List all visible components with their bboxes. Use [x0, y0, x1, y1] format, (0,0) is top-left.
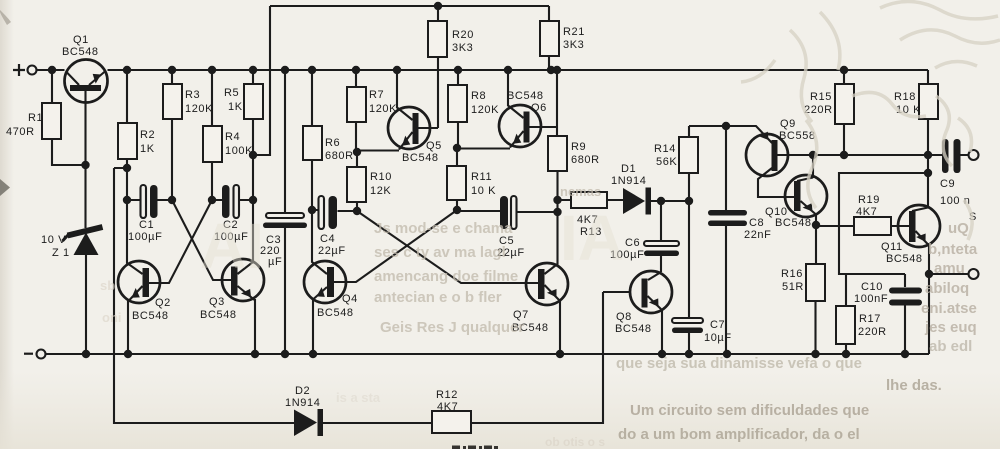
svg-text:ob otis o s: ob otis o s: [545, 435, 605, 449]
svg-text:BC548: BC548: [507, 90, 544, 102]
svg-text:sb: sb: [100, 278, 115, 293]
svg-text:amu: amu: [934, 260, 965, 277]
svg-text:10µF: 10µF: [704, 332, 732, 344]
svg-text:C6: C6: [625, 237, 640, 249]
node C10 bottom rail: [901, 350, 909, 358]
node R16 bottom rail: [811, 350, 819, 358]
svg-text:3K3: 3K3: [563, 39, 584, 51]
svg-text:12K: 12K: [370, 185, 391, 197]
resistor R13 4K7: [558, 192, 624, 238]
svg-text:1N914: 1N914: [285, 397, 320, 409]
node R2 top rail: [123, 66, 131, 74]
node mute tap: [123, 164, 131, 172]
svg-text:AI: AI: [200, 210, 264, 282]
svg-text:R10: R10: [370, 171, 392, 183]
terminal - (negative input): [24, 350, 46, 359]
svg-text:C10: C10: [861, 281, 883, 293]
svg-text:R1: R1: [28, 112, 43, 124]
node top bus R20: [434, 2, 442, 10]
svg-text:jes euq: jes euq: [924, 319, 977, 336]
capacitor C10: [854, 274, 922, 354]
node R8 R11 junction: [453, 144, 461, 152]
wire top rail: [37, 69, 929, 71]
resistor R16: [781, 225, 825, 354]
svg-text:b,nteta: b,nteta: [928, 241, 978, 258]
svg-text:Q3: Q3: [209, 296, 225, 308]
svg-text:do a um bom amplificador, da o: do a um bom amplificador, da o el: [618, 426, 860, 443]
node C3 bottom rail: [281, 350, 289, 358]
node C8 top: [722, 122, 730, 130]
resistor R7: [347, 70, 397, 152]
svg-text:22nF: 22nF: [744, 229, 771, 241]
svg-text:BC548: BC548: [200, 309, 237, 321]
svg-text:lhe das.: lhe das.: [886, 377, 942, 394]
node Q4 emitter rail: [309, 350, 317, 358]
svg-text:10 K: 10 K: [471, 185, 496, 197]
transistor Q11: [881, 155, 940, 274]
svg-text:C8: C8: [749, 217, 764, 229]
node C2 right: [249, 196, 257, 204]
resistor R10: [347, 152, 392, 211]
node R5 feedback: [249, 151, 257, 159]
svg-text:Q8: Q8: [616, 311, 632, 323]
node R8 top rail: [454, 66, 462, 74]
resistor R20: [428, 6, 474, 57]
wire Q11 emitter to terminal and rail: [929, 274, 969, 354]
svg-text:R12: R12: [436, 389, 458, 401]
svg-text:R20: R20: [452, 29, 474, 41]
resistor R12 4K7: [323, 389, 471, 433]
svg-text:Geis Res J qualquer: Geis Res J qualquer: [380, 319, 524, 336]
svg-text:R21: R21: [563, 26, 585, 38]
terminal output low: [969, 269, 979, 279]
svg-text:ab edl: ab edl: [929, 338, 972, 355]
zener Z1: [41, 165, 103, 354]
node branch: [924, 169, 932, 177]
svg-text:oni: oni: [102, 310, 122, 325]
svg-text:Q2: Q2: [155, 297, 171, 309]
resistor R2: [118, 70, 155, 200]
svg-text:4K7: 4K7: [856, 206, 877, 218]
node Q10 emitter R16 R19: [812, 221, 820, 229]
resistor R11: [447, 148, 496, 210]
svg-text:BC548: BC548: [62, 46, 99, 58]
node Q5 base rail: [393, 66, 401, 74]
svg-text:R2: R2: [140, 129, 155, 141]
capacitor C8: [708, 126, 771, 354]
svg-text:Q5: Q5: [426, 140, 442, 152]
svg-text:100nF: 100nF: [854, 293, 888, 305]
svg-text:is a sta: is a sta: [336, 390, 381, 405]
svg-text:abiloq: abiloq: [925, 280, 969, 297]
capacitor C5: [457, 196, 557, 259]
svg-text:R11: R11: [471, 171, 492, 183]
node R7 top rail: [352, 66, 360, 74]
svg-text:ses c ty av ma lagl: ses c ty av ma lagl: [374, 244, 506, 261]
svg-text:BC548: BC548: [775, 217, 812, 229]
svg-text:BC548: BC548: [132, 310, 169, 322]
node R17 bottom rail: [842, 350, 850, 358]
resistor R3: [163, 70, 213, 200]
svg-text:4K7: 4K7: [437, 401, 458, 413]
svg-text:100µF: 100µF: [128, 231, 162, 243]
node R15 top rail: [840, 66, 848, 74]
transistor Q3: [172, 200, 264, 354]
svg-text:BC548: BC548: [886, 253, 923, 265]
terminal output S: [969, 150, 979, 160]
resistor R9: [545, 70, 600, 274]
node C7 bottom rail: [685, 350, 693, 358]
terminal + (positive input): [13, 64, 37, 76]
node Q3 emitter rail: [251, 350, 259, 358]
svg-text:IA: IA: [560, 202, 624, 274]
resistor R18: [894, 70, 938, 155]
node C4 right R10: [353, 207, 361, 215]
svg-text:100K: 100K: [225, 145, 253, 157]
svg-text:D1: D1: [621, 163, 636, 175]
svg-text:Q11: Q11: [881, 241, 903, 253]
svg-text:Um circuito sem dificuldades q: Um circuito sem dificuldades que: [630, 402, 869, 419]
transistor Q4: [304, 210, 457, 354]
transistor Q1: [62, 34, 108, 165]
svg-text:10 V: 10 V: [41, 234, 66, 246]
capacitor C6: [610, 201, 679, 272]
svg-text:C7: C7: [710, 319, 725, 331]
node C8 bottom rail: [723, 350, 731, 358]
svg-text:D2: D2: [295, 385, 310, 397]
capacitor C7: [672, 201, 732, 354]
transistor Q9: [746, 118, 928, 197]
svg-text:R9: R9: [571, 141, 586, 153]
transistor Q2: [118, 200, 212, 354]
svg-text:120K: 120K: [471, 104, 499, 116]
capacitor C9: [928, 139, 977, 223]
svg-text:680R: 680R: [325, 150, 354, 162]
svg-text:3K3: 3K3: [452, 42, 473, 54]
svg-text:BC548: BC548: [402, 152, 439, 164]
node R3 top rail: [168, 66, 176, 74]
svg-text:R16: R16: [781, 268, 803, 280]
capacitor C2: [212, 185, 253, 243]
svg-text:470R: 470R: [6, 126, 35, 138]
transistor Q6: [457, 70, 557, 149]
transistor Q10: [765, 155, 827, 229]
svg-text:680R: 680R: [571, 154, 600, 166]
node C2 left: [208, 196, 216, 204]
svg-text:que seja sua dinamisse vefa: que seja sua dinamisse vefa o que: [616, 355, 862, 372]
node R21 bottom rail: [547, 66, 555, 74]
node R13 tap: [553, 196, 561, 204]
node R5 top rail: [249, 66, 257, 74]
node Z1 bottom rail: [82, 350, 90, 358]
svg-text:1K: 1K: [140, 143, 155, 155]
resistor R1: [6, 70, 85, 165]
svg-text:C9: C9: [940, 178, 955, 190]
svg-text:R6: R6: [325, 137, 340, 149]
resistor R19 4K7: [816, 194, 909, 235]
node R6 top rail: [308, 66, 316, 74]
node R18 bottom C9: [924, 151, 932, 159]
wire mute loop left: [114, 168, 294, 423]
svg-text:R17: R17: [859, 313, 881, 325]
svg-text:R8: R8: [471, 90, 486, 102]
svg-text:120K: 120K: [185, 103, 213, 115]
transistor Q8: [471, 271, 672, 423]
svg-text:R3: R3: [185, 89, 200, 101]
svg-text:BC548: BC548: [615, 323, 652, 335]
resistor R17: [836, 274, 887, 354]
svg-text:Q6: Q6: [531, 102, 547, 114]
svg-text:R18: R18: [894, 91, 916, 103]
svg-text:R15: R15: [810, 91, 832, 103]
svg-text:R4: R4: [225, 131, 240, 143]
resistor R21: [540, 21, 585, 70]
svg-text:1N914: 1N914: [611, 175, 646, 187]
node R1 top: [48, 66, 56, 74]
svg-text:uQ: uQ: [948, 220, 969, 237]
wire Q11 collector branch: [839, 173, 928, 274]
node Q11 emitter out: [925, 270, 933, 278]
resistor R4: [203, 70, 253, 200]
node Q9 base Q10 collector: [809, 151, 817, 159]
resistor R5: [224, 70, 263, 200]
transistor Q7: [357, 211, 568, 354]
node C1 right: [168, 196, 176, 204]
node Q7 emitter rail: [556, 350, 564, 358]
svg-text:nemas: nemas: [560, 184, 601, 199]
node Q8 emitter rail: [658, 350, 666, 358]
node Q6 base rail: [504, 66, 512, 74]
resistor R15: [804, 70, 854, 155]
node Q2 emitter rail: [124, 350, 132, 358]
resistor R6: [303, 70, 354, 210]
node R11 bottom C5 left: [453, 206, 461, 214]
node D1 C6: [657, 197, 665, 205]
transistor Q5: [357, 57, 442, 164]
svg-text:R19: R19: [858, 194, 880, 206]
wire R14 top to Q9 emitter: [689, 126, 772, 143]
svg-text:Q1: Q1: [73, 34, 89, 46]
svg-text:amencang doe filme: amencang doe filme: [374, 268, 518, 285]
node R4 top rail: [208, 66, 216, 74]
diode D2 1N914: [285, 385, 323, 436]
capacitor C1: [127, 185, 172, 243]
svg-text:56K: 56K: [656, 156, 677, 168]
svg-text:BC558: BC558: [779, 130, 816, 142]
resistor R8: [448, 70, 499, 148]
svg-text:R5: R5: [224, 87, 239, 99]
node D1 R14: [685, 197, 693, 205]
svg-text:Js mod-se e chama: Js mod-se e chama: [374, 220, 513, 237]
caption figure (clipped): [452, 446, 498, 449]
svg-text:eni.atse: eni.atse: [921, 300, 977, 317]
svg-text:22µF: 22µF: [318, 245, 346, 257]
node R1 base junction: [81, 161, 89, 169]
svg-text:Z 1: Z 1: [52, 247, 70, 259]
svg-text:1K: 1K: [228, 101, 243, 113]
node C1 left: [123, 196, 131, 204]
svg-text:R14: R14: [654, 143, 676, 155]
svg-text:220R: 220R: [858, 326, 887, 338]
svg-text:C1: C1: [139, 219, 154, 231]
node C3 top rail: [281, 66, 289, 74]
svg-text:µF: µF: [268, 256, 282, 268]
svg-text:R7: R7: [369, 89, 384, 101]
node R9 top rail: [553, 66, 561, 74]
svg-text:C4: C4: [320, 233, 335, 245]
svg-text:BC548: BC548: [317, 307, 354, 319]
wire bottom rail: [46, 353, 930, 355]
svg-text:51R: 51R: [782, 281, 804, 293]
node R6 bottom C4 left: [308, 206, 316, 214]
capacitor C3: [260, 70, 307, 354]
capacitor C4: [312, 196, 357, 257]
svg-text:Q9: Q9: [780, 118, 796, 130]
node R7 R10 junction: [353, 148, 361, 156]
node C5 right R9: [553, 208, 561, 216]
svg-text:Q4: Q4: [342, 293, 358, 305]
svg-text:antecian e o b fler: antecian e o b fler: [374, 289, 502, 306]
diode D1 1N914: [611, 163, 689, 215]
resistor R14: [654, 126, 698, 201]
node R15 bottom: [840, 151, 848, 159]
wire top feedback bus: [253, 6, 549, 155]
